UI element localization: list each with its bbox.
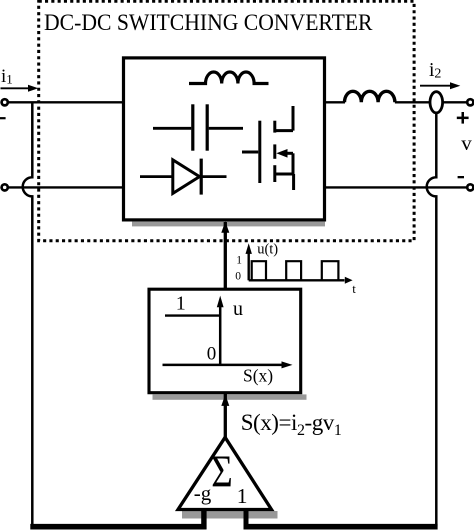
waveform sketch: u(t) vertical axis with arrow [247, 249, 249, 280]
comparator graph: level-1 line [165, 314, 220, 316]
svg-text:S(x)=i2-gv1: S(x)=i2-gv1 [241, 410, 342, 439]
stub: -g input to bottom-left rail [201, 510, 206, 530]
label + (output) [457, 112, 469, 124]
MOSFET Q1 body arrowhead [276, 149, 287, 158]
wire S(x): summing junction to comparator, with up arrowhead [224, 393, 227, 438]
wire: bottom-left rail (v1 feedback) [30, 524, 206, 530]
svg-text:u(t): u(t) [257, 241, 278, 257]
svg-text:1: 1 [176, 293, 186, 315]
wire: v1 sense, left vertical with hop over bottom rail [23, 102, 33, 524]
svg-text:0: 0 [207, 343, 217, 364]
diode D1 (inside block) [140, 159, 227, 195]
svg-text:u: u [233, 298, 243, 320]
arrow i1 [1, 87, 30, 89]
current sensor oval on output wire [430, 92, 443, 113]
summing junction triangle [178, 437, 272, 509]
wire: bottom-right rail (i2 feedback) [244, 524, 438, 530]
waveform pulse 1 [252, 261, 266, 280]
dotted converter boundary box [39, 1, 414, 241]
wire: bottom-right (block to output terminal) [325, 186, 468, 188]
svg-text:DC-DC SWITCHING CONVERTER: DC-DC SWITCHING CONVERTER [44, 10, 373, 35]
svg-text:i1: i1 [1, 66, 13, 87]
comparator graph: S(x) axis (horizontal) with arrow [163, 364, 283, 367]
svg-text:S(x): S(x) [243, 366, 273, 386]
wire: bottom-left (input bottom to block) [9, 186, 124, 188]
output terminal top [467, 99, 473, 105]
MOSFET Q1 (inside block) [242, 106, 294, 190]
svg-text:0: 0 [235, 271, 241, 283]
converter block shadow [132, 222, 325, 227]
waveform pulse 2 [286, 261, 301, 280]
output inductor L2 [345, 91, 395, 102]
wire: top-left (input top to block) [9, 101, 124, 103]
svg-text:t: t [352, 281, 356, 296]
inductor L1 (inside block) [189, 72, 269, 84]
capacitor C1 (inside block) [153, 104, 243, 150]
converter block box U1 [124, 58, 325, 220]
svg-text:v: v [461, 131, 472, 155]
waveform pulse 3 [322, 261, 339, 280]
comparator (sign function) block [149, 289, 301, 393]
stub: 1 input to bottom-right rail [244, 510, 249, 530]
wire: inductor to output terminal [395, 101, 467, 103]
svg-text:Σ: Σ [211, 447, 233, 497]
output terminal bottom [467, 184, 473, 190]
summing junction shadow [182, 511, 278, 519]
svg-text:-g: -g [194, 481, 212, 505]
input terminal top [2, 99, 8, 105]
svg-text:1: 1 [237, 484, 248, 508]
wire: i2 sense, right vertical with hop over bottom rail [427, 113, 437, 527]
wire: top-right (block to inductor) [325, 101, 346, 103]
svg-text:1: 1 [236, 255, 242, 267]
comparator block shadow [153, 394, 307, 399]
comparator graph: u axis (vertical) with arrow [219, 303, 222, 365]
arrow i2 [420, 85, 451, 87]
label - (output) [458, 176, 464, 178]
input terminal bottom [2, 184, 8, 190]
wire u: comparator output to converter block, with up arrowhead [224, 222, 227, 289]
waveform horizontal axis with arrow [249, 279, 345, 281]
input polarity dash [0, 117, 6, 119]
svg-text:i2: i2 [429, 60, 441, 82]
